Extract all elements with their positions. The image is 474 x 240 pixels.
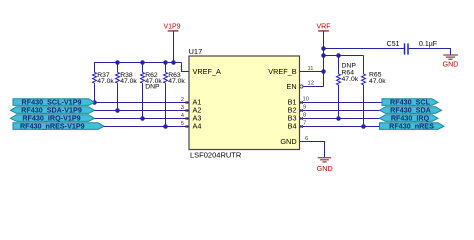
svg-text:VREF_A: VREF_A <box>193 67 222 76</box>
svg-text:V1P9: V1P9 <box>163 23 180 30</box>
pin A3 glyph <box>186 117 189 120</box>
wire VRF stem <box>323 31 325 87</box>
node junction rail/V1P9 <box>171 60 176 65</box>
pin B4 glyph <box>300 125 303 128</box>
port RF430_SCL-V1P9 <box>13 98 95 107</box>
svg-text:47.0k: 47.0k <box>342 76 359 83</box>
svg-text:GND: GND <box>317 164 333 173</box>
ground GND (U17) <box>317 158 333 174</box>
power V1P9 <box>163 23 180 31</box>
node junction rail/R38 <box>115 60 120 65</box>
node junction stem/pullup rail <box>321 53 326 58</box>
wire A4 <box>104 126 190 128</box>
svg-text:DNP: DNP <box>145 84 160 91</box>
wire VRF to pullups <box>324 55 364 57</box>
svg-text:2: 2 <box>181 97 184 103</box>
svg-text:VREF_B: VREF_B <box>268 67 297 76</box>
IC U17 level shifter <box>189 47 300 160</box>
svg-text:5: 5 <box>181 121 184 127</box>
svg-text:11: 11 <box>308 66 314 72</box>
node junction VREF_B/stem <box>321 69 326 74</box>
resistor R38 <box>116 63 138 111</box>
port RF430_nRES-V1P9 <box>13 122 104 131</box>
resistor R64 <box>337 56 359 119</box>
pin A4 glyph <box>186 125 189 128</box>
pin A2 glyph <box>186 109 189 112</box>
wire VRF to C51 <box>324 48 405 50</box>
wire pin 11 VREF_B <box>300 71 324 73</box>
node junction R65/B4 <box>361 124 366 129</box>
resistor R62 <box>141 63 163 119</box>
port RF430_SDA-V1P9 <box>11 106 95 115</box>
resistor R63 <box>164 63 186 127</box>
wire GND pin 6 <box>300 142 325 158</box>
port RF430_SCL <box>382 98 438 107</box>
svg-text:U17: U17 <box>189 47 203 56</box>
pin B3 glyph <box>300 117 303 120</box>
pin B2 glyph <box>300 109 303 112</box>
node junction R38/A2 <box>115 108 120 113</box>
wire C51 to GND <box>409 49 451 55</box>
pin B1 glyph <box>300 101 303 104</box>
power VRF <box>317 23 331 31</box>
wire A3 <box>95 118 190 120</box>
svg-text:EN: EN <box>286 82 296 91</box>
wire B1 <box>300 102 383 104</box>
port RF430_IRQ-V1P9 <box>11 114 95 123</box>
svg-text:B4: B4 <box>288 121 297 130</box>
ground GND (C51) <box>443 55 459 69</box>
port RF430_nRES <box>380 122 445 131</box>
svg-text:RF430_nRES-V1P9: RF430_nRES-V1P9 <box>20 122 85 131</box>
node junction R37/A1 <box>92 100 97 105</box>
svg-text:7: 7 <box>303 121 306 127</box>
svg-text:A4: A4 <box>193 121 202 130</box>
svg-text:0.1µF: 0.1µF <box>419 41 437 48</box>
wire A2 <box>95 110 190 112</box>
svg-text:C51: C51 <box>387 41 400 48</box>
resistor R37 <box>93 63 115 103</box>
svg-text:10: 10 <box>303 97 309 103</box>
port RF430_SDA <box>380 106 442 115</box>
svg-text:VRF: VRF <box>317 23 331 30</box>
pin 12 EN bubble <box>300 85 303 88</box>
node junction R64/B3 <box>336 116 341 121</box>
svg-text:47.0k: 47.0k <box>369 78 386 85</box>
svg-text:8: 8 <box>303 113 306 119</box>
svg-text:9: 9 <box>303 105 306 111</box>
capacitor C51 <box>387 41 437 54</box>
wire EN to stem <box>303 86 324 88</box>
port RF430_IRQ <box>380 114 439 123</box>
svg-text:47.0k: 47.0k <box>168 78 185 85</box>
svg-text:RF430_nRES: RF430_nRES <box>389 122 434 131</box>
wire B3 <box>300 118 380 120</box>
node junction R62/A3 <box>140 116 145 121</box>
svg-text:12: 12 <box>308 81 314 87</box>
resistor R65 <box>362 56 387 127</box>
svg-text:47.0k: 47.0k <box>97 78 114 85</box>
node junction rail/R63 <box>163 60 168 65</box>
svg-text:6: 6 <box>305 136 308 142</box>
wire A1 <box>95 102 190 104</box>
node junction R64/pullup rail <box>336 53 341 58</box>
wire V1P9 stem <box>173 31 175 63</box>
node junction R63/A4 <box>163 124 168 129</box>
node junction rail/R62 <box>140 60 145 65</box>
pin A1 glyph <box>186 101 189 104</box>
svg-text:GND: GND <box>443 60 459 69</box>
svg-text:47.0k: 47.0k <box>120 78 137 85</box>
wire rail to pin 1 <box>182 63 190 72</box>
svg-text:GND: GND <box>280 137 296 146</box>
wire B4 <box>300 126 380 128</box>
svg-text:3: 3 <box>181 105 184 111</box>
svg-text:LSF0204RUTR: LSF0204RUTR <box>190 151 242 160</box>
wire B2 <box>300 110 380 112</box>
wire V1P9 rail <box>94 62 182 64</box>
node junction stem/C51 rail <box>321 46 326 51</box>
svg-text:1: 1 <box>180 66 183 72</box>
